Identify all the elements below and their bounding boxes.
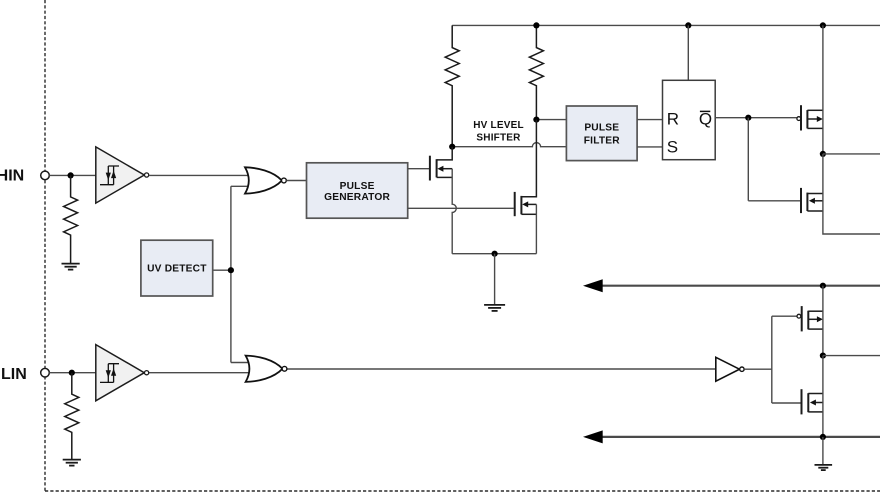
transistor P2 low-side PMOS: [802, 306, 823, 331]
junction rail latch: [685, 22, 691, 28]
wire COM arrow line lower: [592, 436, 880, 438]
wire LIN buffer to NOR2 input B: [149, 372, 251, 374]
wire Qbar bus down: [747, 118, 749, 201]
junction HO node: [820, 151, 826, 157]
label HV LEVEL SHIFTER: [473, 120, 524, 144]
ground HIN resistor: [62, 264, 80, 270]
top rail VB: [452, 24, 880, 26]
wire latch top to rail: [687, 25, 689, 80]
input terminal HIN: [41, 171, 50, 180]
wire P2 vertical: [822, 286, 824, 356]
wire NOR2 to inverter: [287, 368, 716, 370]
PULSE FILTER block: [566, 106, 637, 161]
wire HIN buffer to NOR1 input A: [149, 174, 250, 176]
wire LS ground lead: [494, 254, 496, 304]
junction HIN: [68, 172, 74, 178]
RS latch U2: [663, 80, 716, 159]
wire NOR2 input A from bus: [231, 362, 251, 364]
svg-text:FILTER: FILTER: [584, 136, 621, 147]
ground COM: [815, 465, 833, 470]
resistor R2 level shift: [529, 25, 543, 119]
junction R node: [533, 117, 539, 123]
wire latch Qbar to drivers: [715, 117, 797, 119]
wire NOR1 to pulse generator: [286, 180, 306, 182]
wire M2 source: [535, 204, 537, 253]
resistor LIN pulldown: [65, 373, 79, 460]
wire bus to P2 gate: [772, 315, 797, 317]
svg-text:HV LEVEL: HV LEVEL: [473, 120, 524, 131]
svg-text:Q: Q: [699, 109, 712, 128]
NOR gate U3 (LIN): [246, 356, 287, 382]
arrow VDD left: [583, 279, 603, 292]
wire LO output: [823, 355, 880, 357]
transistor M2 level-shift NMOS: [515, 120, 537, 217]
svg-text:SHIFTER: SHIFTER: [476, 133, 521, 144]
svg-text:HIN: HIN: [0, 167, 24, 184]
resistor R1 level shift: [445, 25, 459, 146]
junction VDD P2: [820, 283, 826, 289]
wire HO output: [823, 153, 880, 155]
svg-text:UV DETECT: UV DETECT: [147, 264, 207, 275]
UV DETECT block: [141, 240, 213, 296]
wire vertical bus UV/NOR: [230, 186, 232, 362]
transistor N2 low-side NMOS: [802, 389, 823, 414]
wire UV DETECT output: [213, 269, 231, 271]
wire low-side gate bus: [771, 316, 773, 403]
wire LIN to buffer: [49, 372, 98, 374]
arrow COM left: [583, 430, 603, 443]
wire filter to latch S: [637, 146, 662, 148]
wire level shifter source rail: [452, 253, 536, 255]
junction UV bus: [228, 267, 234, 273]
schmitt buffer LIN: [96, 345, 149, 401]
junction LS ground: [492, 251, 498, 257]
junction S node: [449, 144, 455, 150]
junction Qbar bus: [745, 115, 751, 121]
wire COM ground lead: [822, 437, 824, 465]
inverter U4: [716, 357, 744, 381]
junction LO node: [820, 353, 826, 359]
transistor M1 level-shift NMOS: [430, 147, 452, 181]
junction rail P1: [820, 22, 826, 28]
wire HIN to buffer: [49, 174, 98, 176]
wire N1 source to VS: [823, 154, 880, 234]
wire pulse generator to M1 gate: [408, 168, 429, 170]
wire S line with hop over M2 drain: [452, 143, 566, 147]
svg-text:R: R: [667, 110, 679, 129]
wire pulse generator to M2 gate: [408, 207, 514, 209]
transistor P1 high-side PMOS: [801, 105, 823, 130]
svg-text:GENERATOR: GENERATOR: [324, 192, 390, 203]
wire P1 drain-source vertical: [822, 25, 824, 154]
svg-text:S: S: [667, 137, 678, 156]
wire bus to N1 gate: [748, 200, 800, 202]
transistor N1 high-side NMOS: [801, 188, 823, 213]
ground level shifter: [484, 305, 505, 311]
svg-text:PULSE: PULSE: [584, 123, 619, 134]
resistor HIN pulldown: [64, 175, 78, 263]
junction COM N2: [820, 434, 826, 440]
PULSE GENERATOR block: [307, 163, 408, 218]
wire filter to latch R: [637, 119, 662, 121]
wire inverter to gate bus: [744, 368, 772, 370]
wire VDD arrow line upper: [592, 285, 880, 287]
wire NOR1 input B from bus: [231, 185, 250, 187]
svg-text:PULSE: PULSE: [340, 181, 375, 192]
schmitt buffer HIN: [96, 147, 149, 203]
wire bus to N2 gate: [772, 402, 801, 404]
junction rail R2: [533, 22, 539, 28]
junction LIN: [69, 370, 75, 376]
wire N2 vertical: [822, 356, 824, 437]
svg-text:LIN: LIN: [1, 366, 27, 383]
NOR gate U1 (HIN): [245, 167, 286, 193]
wire R line: [536, 119, 566, 121]
input terminal LIN: [41, 368, 50, 377]
wire M1 source with hop over M2 gate: [452, 169, 456, 254]
ground LIN resistor: [63, 460, 81, 466]
